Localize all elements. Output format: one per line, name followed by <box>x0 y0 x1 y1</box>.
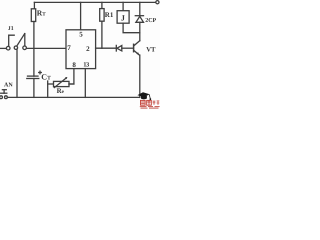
diode VD series in base <box>115 45 117 51</box>
wire top rail <box>34 1 155 3</box>
wire pin13 <box>84 69 86 98</box>
svg-text:8: 8 <box>72 61 76 69</box>
svg-text:J: J <box>121 13 125 22</box>
wire pin2 <box>96 47 116 49</box>
relay coil J <box>122 2 124 10</box>
watermark red text <box>141 100 152 105</box>
pushbutton AN <box>0 96 2 99</box>
resistor RT <box>33 2 35 8</box>
relay contact J1 <box>6 46 10 50</box>
wire pin5 <box>80 2 82 29</box>
svg-text:5: 5 <box>79 31 83 39</box>
svg-text:J1: J1 <box>8 26 14 32</box>
diode 2CP <box>139 2 141 15</box>
svg-text:VT: VT <box>146 46 156 53</box>
svg-text:AN: AN <box>4 83 13 89</box>
svg-text:Re: Re <box>57 87 65 95</box>
svg-text:2: 2 <box>86 45 90 53</box>
terminal top-right <box>156 1 159 4</box>
wire RT bottom to CT top <box>33 22 35 77</box>
wire switch row to IC pin7 <box>0 47 6 49</box>
capacitor CT <box>28 75 39 77</box>
svg-text:7: 7 <box>67 44 71 52</box>
IC U1 <box>66 30 96 69</box>
resistor R1 <box>101 2 103 8</box>
watermark small red line <box>140 107 160 109</box>
wire pin8 <box>69 69 74 84</box>
transistor VT <box>133 44 135 51</box>
wire contact B to bottom rail <box>16 50 18 98</box>
svg-text:2CP: 2CP <box>145 18 156 24</box>
potentiometer Re <box>48 83 54 85</box>
wire bottom rail <box>8 96 140 98</box>
svg-text:R1: R1 <box>105 11 114 19</box>
watermark logo cap <box>137 92 151 100</box>
